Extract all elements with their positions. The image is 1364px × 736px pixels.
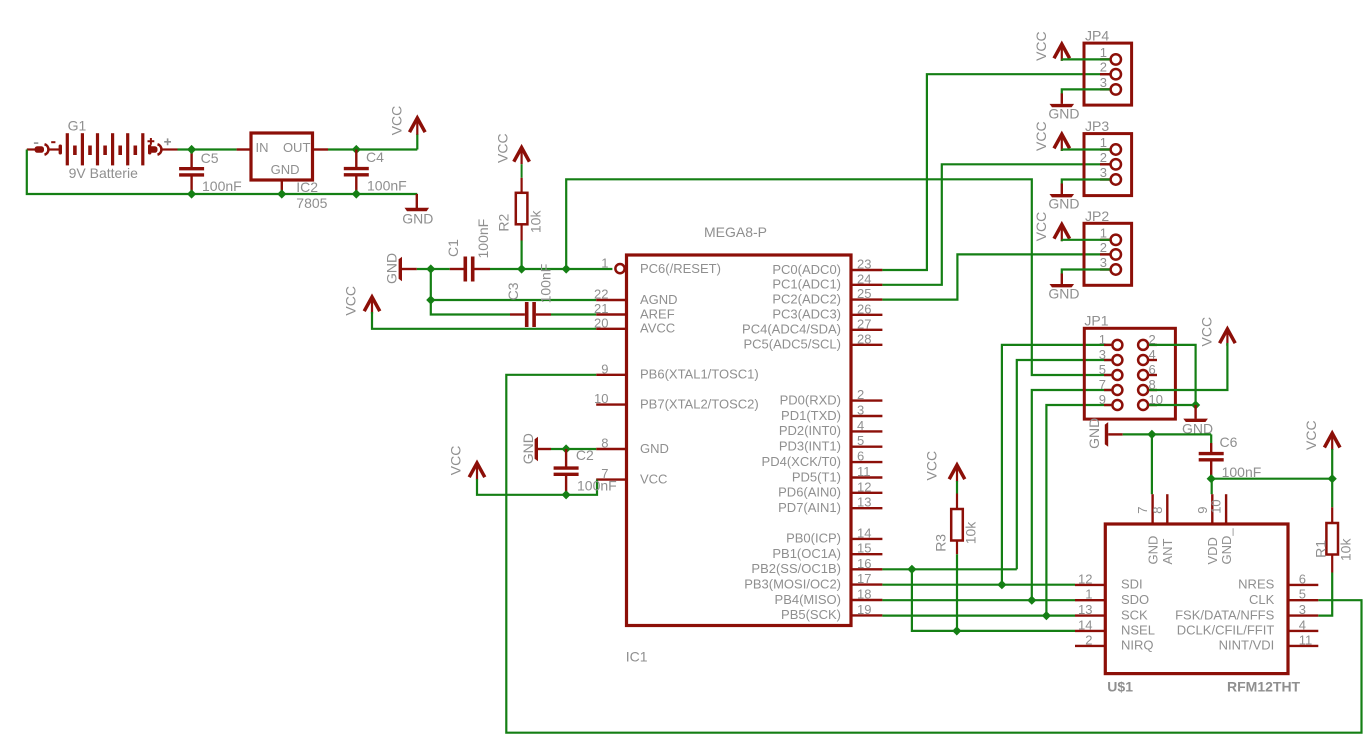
svg-text:GND: GND <box>1048 106 1079 122</box>
svg-text:NRES: NRES <box>1238 577 1274 592</box>
svg-text:26: 26 <box>857 301 871 316</box>
svg-text:VCC: VCC <box>389 106 405 136</box>
svg-text:24: 24 <box>857 271 871 286</box>
svg-text:100nF: 100nF <box>538 264 554 304</box>
svg-text:JP1: JP1 <box>1084 313 1108 329</box>
svg-text:VCC: VCC <box>1199 317 1215 347</box>
svg-text:PC0(ADC0): PC0(ADC0) <box>772 262 841 277</box>
svg-text:C6: C6 <box>1220 434 1238 450</box>
svg-text:VCC: VCC <box>924 451 940 481</box>
svg-text:GND: GND <box>1048 196 1079 212</box>
svg-text:NIRQ: NIRQ <box>1121 638 1154 653</box>
svg-text:7805: 7805 <box>296 195 327 211</box>
svg-text:C2: C2 <box>576 447 594 463</box>
svg-text:1: 1 <box>601 256 608 271</box>
svg-text:5: 5 <box>1099 362 1106 377</box>
svg-text:GND: GND <box>640 441 669 456</box>
svg-text:PC2(ADC2): PC2(ADC2) <box>772 291 841 306</box>
svg-text:PB7(XTAL2/TOSC2): PB7(XTAL2/TOSC2) <box>640 396 759 411</box>
svg-text:GND: GND <box>402 211 433 227</box>
svg-text:14: 14 <box>857 525 871 540</box>
svg-text:VCC: VCC <box>448 446 464 476</box>
svg-text:13: 13 <box>1078 602 1092 617</box>
svg-text:23: 23 <box>857 257 871 272</box>
svg-text:NSEL: NSEL <box>1121 623 1155 638</box>
svg-text:21: 21 <box>594 301 608 316</box>
svg-text:IN: IN <box>256 140 269 155</box>
svg-text:AVCC: AVCC <box>640 321 675 336</box>
svg-text:PB0(ICP): PB0(ICP) <box>786 531 841 546</box>
svg-text:SDI: SDI <box>1121 577 1143 592</box>
svg-text:PD1(TXD): PD1(TXD) <box>781 408 841 423</box>
svg-text:11: 11 <box>857 464 871 479</box>
svg-text:PB3(MOSI/OC2): PB3(MOSI/OC2) <box>744 576 841 591</box>
svg-text:PD4(XCK/T0): PD4(XCK/T0) <box>762 454 841 469</box>
svg-text:PB6(XTAL1/TOSC1): PB6(XTAL1/TOSC1) <box>640 367 759 382</box>
svg-text:R3: R3 <box>933 534 949 552</box>
svg-text:9: 9 <box>1195 507 1210 514</box>
svg-text:PC6(/RESET): PC6(/RESET) <box>640 261 721 276</box>
svg-text:10: 10 <box>594 391 608 406</box>
svg-text:22: 22 <box>594 287 608 302</box>
svg-text:3: 3 <box>1099 347 1106 362</box>
svg-text:SDO: SDO <box>1121 592 1149 607</box>
svg-text:NINT/VDI: NINT/VDI <box>1219 638 1275 653</box>
svg-text:7: 7 <box>1135 507 1150 514</box>
svg-text:10k: 10k <box>1338 538 1354 562</box>
svg-text:GND: GND <box>520 433 536 464</box>
svg-text:IC2: IC2 <box>296 179 318 195</box>
svg-text:100nF: 100nF <box>367 177 407 193</box>
svg-text:PD2(INT0): PD2(INT0) <box>779 423 841 438</box>
svg-text:PD3(INT1): PD3(INT1) <box>779 439 841 454</box>
svg-text:3: 3 <box>1100 75 1107 90</box>
svg-text:13: 13 <box>857 495 871 510</box>
svg-text:C3: C3 <box>505 282 521 300</box>
svg-text:5: 5 <box>1299 587 1306 602</box>
svg-text:15: 15 <box>857 541 871 556</box>
svg-text:4: 4 <box>1149 347 1156 362</box>
svg-text:AREF: AREF <box>640 306 675 321</box>
svg-text:PB1(OC1A): PB1(OC1A) <box>772 546 841 561</box>
svg-text:GND: GND <box>271 162 300 177</box>
svg-text:16: 16 <box>857 556 871 571</box>
svg-text:PD6(AIN0): PD6(AIN0) <box>778 485 841 500</box>
svg-text:FSK/DATA/NFFS: FSK/DATA/NFFS <box>1175 607 1275 622</box>
svg-text:1: 1 <box>1100 225 1107 240</box>
svg-text:100nF: 100nF <box>577 477 617 493</box>
svg-text:8: 8 <box>601 436 608 451</box>
svg-text:18: 18 <box>857 587 871 602</box>
svg-text:VCC: VCC <box>343 286 359 316</box>
svg-text:VCC: VCC <box>1033 212 1049 242</box>
svg-text:G1: G1 <box>68 118 87 134</box>
svg-text:VDD: VDD <box>1205 537 1220 564</box>
svg-text:17: 17 <box>857 571 871 586</box>
svg-text:VCC: VCC <box>1303 420 1319 450</box>
svg-text:10: 10 <box>1209 499 1224 513</box>
svg-text:3: 3 <box>1100 255 1107 270</box>
svg-text:C4: C4 <box>366 149 384 165</box>
svg-text:ANT: ANT <box>1160 538 1175 564</box>
svg-text:11: 11 <box>1299 632 1313 647</box>
svg-text:PC5(ADC5/SCL): PC5(ADC5/SCL) <box>743 337 841 352</box>
svg-text:MEGA8-P: MEGA8-P <box>704 224 767 240</box>
svg-text:4: 4 <box>857 418 864 433</box>
svg-text:GND_: GND_ <box>1219 528 1234 565</box>
svg-text:9V Batterie: 9V Batterie <box>69 165 138 181</box>
svg-text:28: 28 <box>857 331 871 346</box>
svg-text:6: 6 <box>1299 571 1306 586</box>
svg-text:PD5(T1): PD5(T1) <box>792 469 841 484</box>
svg-text:VCC: VCC <box>640 471 667 486</box>
svg-text:PB4(MISO): PB4(MISO) <box>775 592 841 607</box>
svg-text:C1: C1 <box>445 239 461 257</box>
svg-text:20: 20 <box>594 315 608 330</box>
svg-text:PD0(RXD): PD0(RXD) <box>780 392 841 407</box>
svg-text:JP4: JP4 <box>1085 28 1109 44</box>
svg-text:3: 3 <box>1100 165 1107 180</box>
svg-text:SCK: SCK <box>1121 607 1148 622</box>
svg-text:7: 7 <box>1099 377 1106 392</box>
svg-text:3: 3 <box>857 403 864 418</box>
svg-text:VCC: VCC <box>1033 121 1049 151</box>
svg-text:PC4(ADC4/SDA): PC4(ADC4/SDA) <box>742 322 841 337</box>
svg-text:PC1(ADC1): PC1(ADC1) <box>772 277 841 292</box>
svg-text:6: 6 <box>857 449 864 464</box>
svg-text:GND: GND <box>1145 536 1160 565</box>
svg-text:JP2: JP2 <box>1085 208 1109 224</box>
svg-text:27: 27 <box>857 316 871 331</box>
svg-text:2: 2 <box>1100 240 1107 255</box>
svg-text:PB5(SCK): PB5(SCK) <box>781 607 841 622</box>
svg-text:8: 8 <box>1150 507 1165 514</box>
svg-text:25: 25 <box>857 286 871 301</box>
svg-text:100nF: 100nF <box>202 178 242 194</box>
svg-text:1: 1 <box>1085 587 1092 602</box>
svg-text:5: 5 <box>857 433 864 448</box>
svg-text:VCC: VCC <box>1033 31 1049 61</box>
svg-text:12: 12 <box>1078 571 1092 586</box>
svg-text:4: 4 <box>1299 617 1306 632</box>
svg-text:2: 2 <box>857 387 864 402</box>
svg-text:10k: 10k <box>528 210 544 234</box>
svg-text:GND: GND <box>1086 418 1102 449</box>
svg-text:6: 6 <box>1149 362 1156 377</box>
svg-text:U$1: U$1 <box>1107 679 1133 695</box>
svg-text:CLK: CLK <box>1249 592 1275 607</box>
svg-text:2: 2 <box>1100 60 1107 75</box>
svg-text:PD7(AIN1): PD7(AIN1) <box>778 500 841 515</box>
svg-text:OUT: OUT <box>283 140 311 155</box>
svg-text:PC3(ADC3): PC3(ADC3) <box>772 307 841 322</box>
svg-text:R2: R2 <box>496 213 512 231</box>
svg-text:DCLK/CFIL/FFIT: DCLK/CFIL/FFIT <box>1177 623 1275 638</box>
svg-text:9: 9 <box>1099 392 1106 407</box>
svg-text:100nF: 100nF <box>475 219 491 259</box>
svg-text:19: 19 <box>857 602 871 617</box>
svg-text:1: 1 <box>1100 135 1107 150</box>
svg-text:14: 14 <box>1078 617 1092 632</box>
svg-text:VCC: VCC <box>495 133 511 163</box>
svg-text:R1: R1 <box>1313 540 1329 558</box>
svg-text:2: 2 <box>1085 632 1092 647</box>
svg-text:10k: 10k <box>963 521 979 545</box>
svg-text:12: 12 <box>857 479 871 494</box>
svg-text:JP3: JP3 <box>1085 118 1109 134</box>
svg-text:1: 1 <box>1099 332 1106 347</box>
svg-text:2: 2 <box>1100 150 1107 165</box>
svg-text:3: 3 <box>1299 602 1306 617</box>
svg-text:GND: GND <box>1048 286 1079 302</box>
svg-text:AGND: AGND <box>640 292 678 307</box>
svg-text:GND: GND <box>384 253 400 284</box>
svg-text:PB2(SS/OC1B): PB2(SS/OC1B) <box>751 561 841 576</box>
svg-text:IC1: IC1 <box>626 648 648 664</box>
svg-text:1: 1 <box>1100 45 1107 60</box>
svg-text:100nF: 100nF <box>1222 464 1262 480</box>
svg-text:C5: C5 <box>201 150 219 166</box>
svg-text:9: 9 <box>601 361 608 376</box>
svg-text:RFM12THT: RFM12THT <box>1227 679 1301 695</box>
